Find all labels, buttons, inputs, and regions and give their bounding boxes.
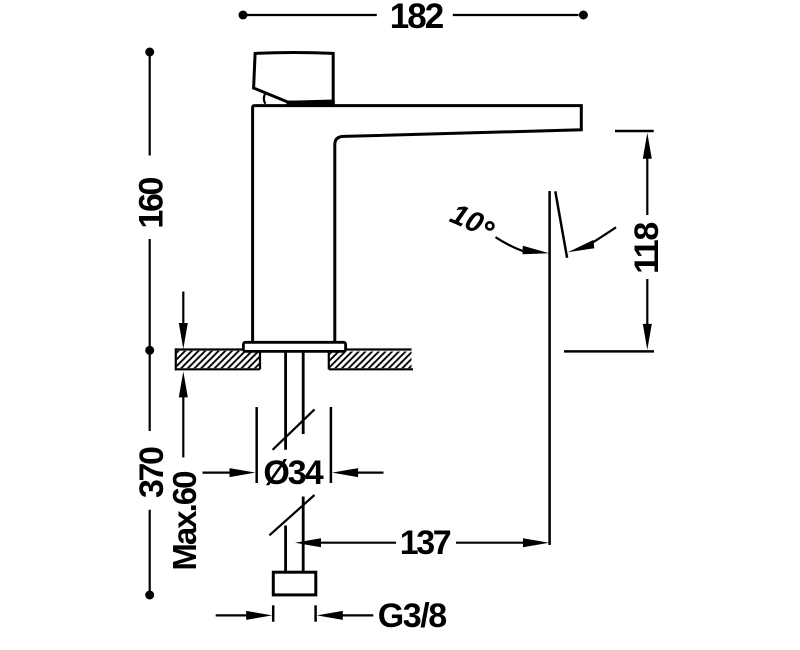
118 down arrowhead	[643, 324, 652, 350]
dimension 160 line lower segment	[149, 239, 151, 347]
supply connector block	[273, 572, 316, 595]
Ø34 right arrow shaft	[358, 472, 384, 474]
countertop hatching left band	[177, 351, 259, 368]
dimension 160/370 shared dot	[145, 346, 154, 355]
dimension 160 line upper segment	[149, 55, 151, 156]
dimension 137 right arrowhead	[523, 538, 549, 547]
countertop top edge right	[346, 348, 412, 350]
dimension 370 line upper segment	[149, 354, 151, 431]
countertop top edge left	[176, 348, 244, 350]
Max.60 lower up-arrowhead	[179, 371, 188, 397]
spray angle reference vertical line	[548, 191, 551, 545]
dimension 370 bottom dot	[145, 591, 154, 600]
pipe break slash lower	[269, 495, 314, 535]
Max.60 lower arrow shaft	[182, 396, 184, 458]
Ø34 left extension line	[255, 407, 258, 483]
G3/8 left arrow shaft	[216, 614, 247, 616]
angle left arc arrowhead	[523, 246, 550, 255]
countertop bottom edge left	[176, 368, 260, 370]
Max.60 upper down-arrowhead	[179, 323, 188, 349]
G3/8 right tick	[314, 605, 317, 621]
Ø34 right extension line	[330, 407, 333, 483]
118 top tick	[615, 130, 654, 133]
dimension 137 line left segment	[321, 542, 397, 544]
G3/8 right arrowhead	[317, 611, 343, 620]
svg-text:137: 137	[400, 524, 451, 562]
Max.60 upper down-arrow shaft	[182, 292, 184, 325]
svg-text:G3/8: G3/8	[378, 597, 447, 635]
countertop hole right edge	[328, 351, 330, 370]
svg-text:118: 118	[628, 223, 666, 274]
handle base thick bar	[287, 101, 335, 106]
dimension 370 line lower segment	[149, 510, 151, 592]
supply pipe left line lower segment	[284, 526, 287, 573]
G3/8 left tick	[272, 605, 275, 621]
118 up arrowhead	[643, 133, 652, 159]
118 line lower segment	[646, 279, 648, 325]
pipe break slash upper	[273, 409, 315, 449]
angle right arc	[591, 227, 616, 243]
Ø34 left arrow shaft	[203, 472, 231, 474]
dimension 182 right dot	[579, 11, 588, 20]
svg-text:182: 182	[390, 0, 444, 36]
118 line upper segment	[646, 158, 648, 215]
dimension 160 top dot	[145, 48, 154, 57]
spray angle slanted line	[555, 191, 567, 257]
G3/8 right arrow shaft	[342, 614, 373, 616]
svg-text:Ø34: Ø34	[263, 454, 323, 492]
handle pivot arc	[264, 94, 265, 104]
angle right arc arrowhead	[568, 240, 595, 252]
handle lever	[254, 53, 334, 103]
svg-text:160: 160	[132, 178, 170, 229]
countertop bottom edge right	[329, 368, 413, 370]
118 bottom tick	[564, 350, 654, 353]
svg-text:Max.60: Max.60	[166, 472, 203, 571]
dimension 137 left arrowhead	[295, 538, 321, 547]
Ø34 left arrowhead	[230, 468, 256, 477]
Ø34 right arrowhead	[332, 468, 358, 477]
angle left arc	[496, 237, 525, 251]
dimension 182 line right segment	[453, 14, 579, 16]
countertop hole left edge	[259, 351, 261, 370]
supply pipe right line lower segment	[302, 497, 305, 573]
dimension 182 line left segment	[246, 14, 377, 16]
supply pipe left line upper segment	[284, 352, 287, 450]
G3/8 left arrowhead	[246, 611, 272, 620]
dimension 182 left dot	[239, 11, 248, 20]
base plate	[243, 342, 345, 351]
countertop left end edge	[175, 348, 177, 370]
degree symbol of angle label	[486, 222, 493, 229]
countertop hatching right band	[330, 352, 412, 369]
faucet body and spout outline	[253, 106, 582, 346]
supply pipe right line upper segment	[302, 352, 305, 435]
dimension 137 line right segment	[456, 542, 525, 544]
